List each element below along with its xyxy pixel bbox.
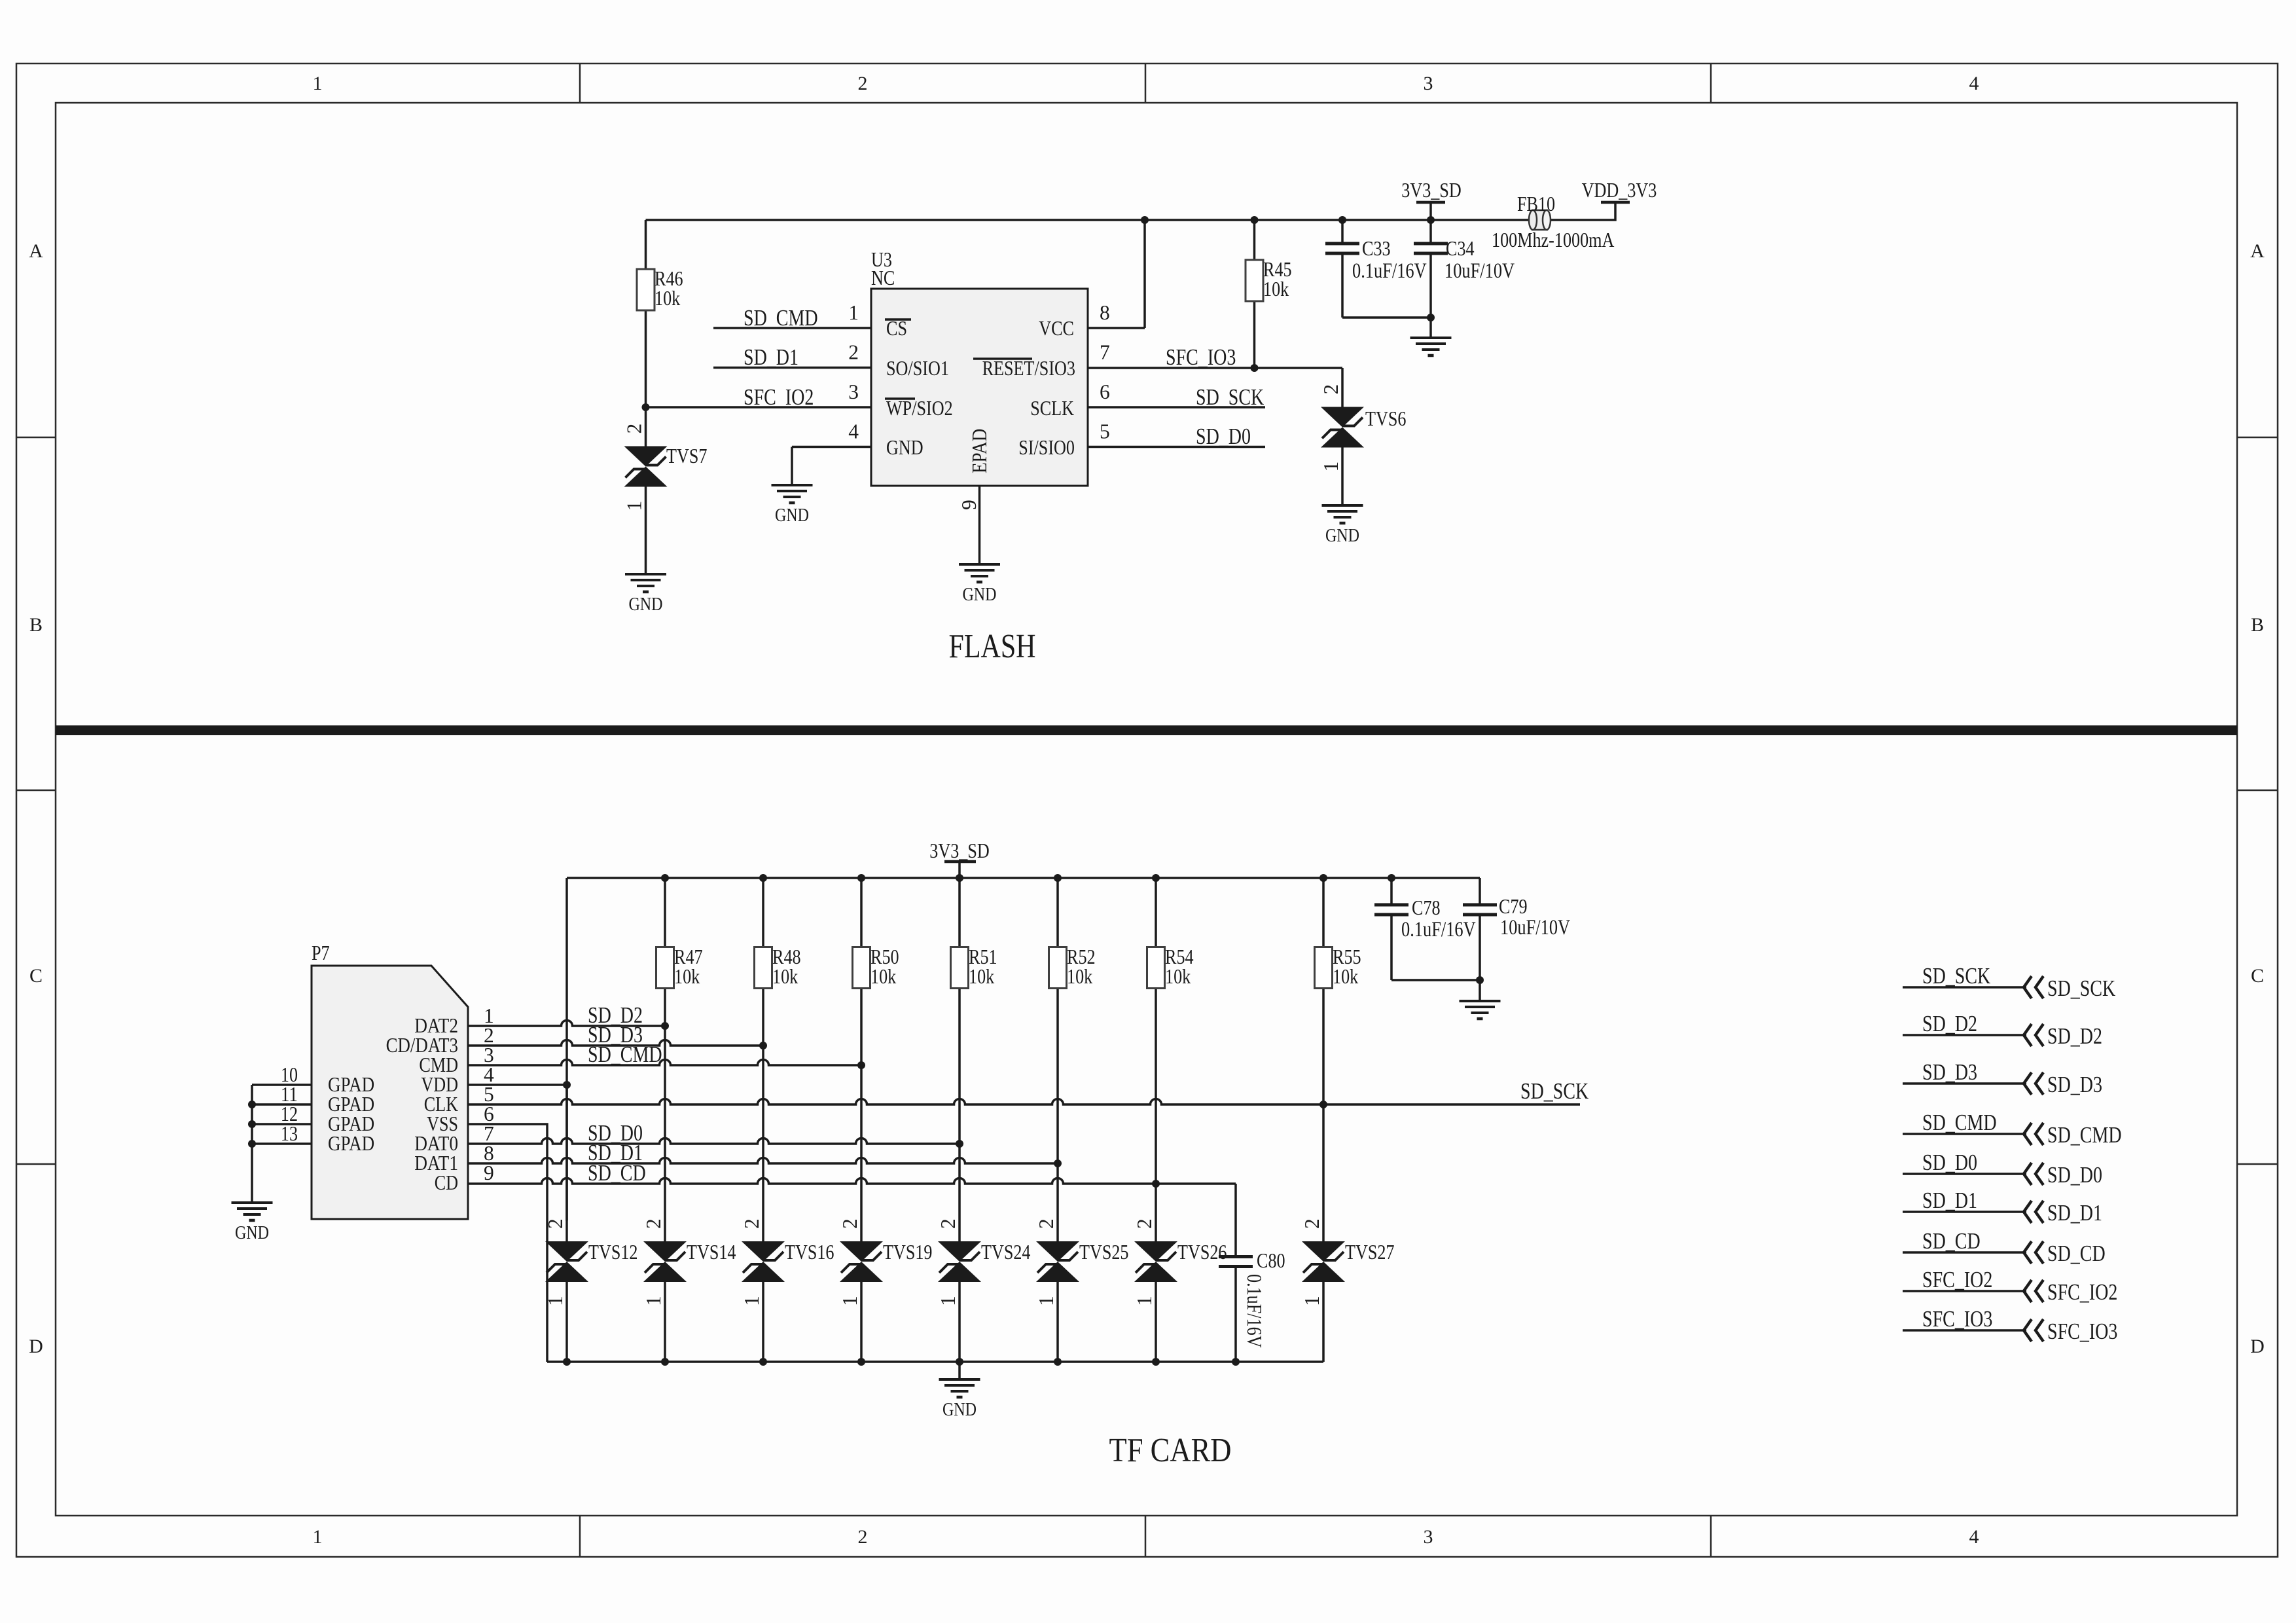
- svg-text:3: 3: [1424, 73, 1433, 94]
- svg-text:TVS27: TVS27: [1345, 1241, 1395, 1264]
- TVS diode TVS19: [840, 1241, 883, 1262]
- wire TVS12 to ground bus: [565, 1282, 568, 1362]
- svg-text:10k: 10k: [655, 287, 680, 310]
- off-page connector SD_CD: [1903, 1251, 2026, 1254]
- svg-text:SD_CMD: SD_CMD: [588, 1042, 662, 1067]
- resistor R54: [1155, 878, 1157, 947]
- svg-text:1: 1: [838, 1296, 861, 1306]
- svg-text:SD_D3: SD_D3: [1922, 1059, 1977, 1085]
- junction node C33/C34 ground: [1427, 314, 1435, 321]
- wire GPAD pin 10: [252, 1084, 312, 1086]
- off-page connector SD_SCK: [1903, 986, 2026, 989]
- power flag VDD_3V3: [1601, 201, 1630, 204]
- svg-text:GND: GND: [235, 1222, 269, 1243]
- svg-text:0.1uF/16V: 0.1uF/16V: [1243, 1274, 1266, 1348]
- ferrite bead FB10: [1532, 210, 1548, 230]
- svg-text:SD_D0: SD_D0: [1196, 424, 1251, 449]
- svg-text:A: A: [29, 240, 43, 262]
- svg-text:SD_SCK: SD_SCK: [1922, 963, 1990, 989]
- svg-text:GPAD: GPAD: [328, 1132, 374, 1155]
- junction node bus/1888: [1232, 1358, 1240, 1366]
- svg-text:9: 9: [484, 1161, 494, 1184]
- svg-text:SO/SIO1: SO/SIO1: [886, 357, 949, 380]
- resistor R51: [958, 878, 961, 947]
- svg-text:2: 2: [838, 1218, 861, 1229]
- junction node bus/1466: [956, 1358, 963, 1366]
- wire SD_CMD to U3 pin 1: [713, 327, 871, 329]
- svg-text:TVS26: TVS26: [1177, 1241, 1227, 1264]
- junction node rail/1766: [1152, 874, 1160, 882]
- junction node rail/1316: [857, 874, 865, 882]
- svg-text:4: 4: [1969, 1526, 1979, 1548]
- junction node rail/C34: [1427, 216, 1435, 224]
- TVS diode TVS7: [624, 447, 668, 467]
- wire TVS27 top: [1322, 1104, 1325, 1241]
- wire VDD (P7 pin4 to 3V3 drop): [468, 1084, 567, 1086]
- junction node CLK/R55: [1319, 1101, 1327, 1108]
- junction node rail/1016: [661, 874, 669, 882]
- svg-text:SD_D1: SD_D1: [744, 344, 798, 370]
- junction node GPAD 11: [248, 1101, 256, 1108]
- junction node rail/C33: [1338, 216, 1346, 224]
- svg-text:9: 9: [958, 500, 980, 510]
- wire C34 to ground: [1429, 318, 1432, 338]
- capacitor C78: [1390, 878, 1393, 905]
- off-page connector SFC_IO2: [1903, 1290, 2026, 1292]
- svg-text:3V3_SD: 3V3_SD: [1401, 179, 1462, 202]
- wire TVS16 top: [762, 1046, 764, 1241]
- resistor R45: [1253, 220, 1256, 260]
- svg-text:2: 2: [858, 1526, 868, 1548]
- wire TVS7 top: [645, 407, 647, 447]
- svg-text:1: 1: [1035, 1296, 1058, 1306]
- svg-text:1: 1: [848, 301, 859, 324]
- svg-text:WP/SIO2: WP/SIO2: [886, 397, 953, 420]
- capacitor C34: [1429, 220, 1432, 244]
- svg-text:GND: GND: [886, 436, 924, 459]
- svg-text:TVS16: TVS16: [785, 1241, 834, 1264]
- wire VSS (P7 pin6 to ground bus): [468, 1124, 547, 1362]
- svg-text:1: 1: [313, 73, 323, 94]
- wire SD_D1 (P7 pin8 to R52/TVS25): [468, 1158, 1058, 1164]
- wire TVS24 top: [958, 1144, 961, 1241]
- svg-text:3V3_SD: 3V3_SD: [929, 839, 990, 862]
- svg-text:C33: C33: [1362, 237, 1391, 260]
- junction node SD_D0: [956, 1140, 963, 1148]
- svg-text:SD_CD: SD_CD: [1922, 1228, 1981, 1254]
- svg-text:8: 8: [1100, 301, 1110, 324]
- capacitor C79: [1479, 878, 1481, 905]
- svg-text:CD: CD: [435, 1171, 458, 1194]
- svg-text:SD_CMD: SD_CMD: [2047, 1122, 2122, 1148]
- svg-text:10k: 10k: [969, 965, 994, 988]
- svg-text:TVS24: TVS24: [981, 1241, 1031, 1264]
- wire SD_D3 (P7 pin2 to R48/TVS16): [468, 1040, 763, 1046]
- wire GPAD pin 11: [252, 1103, 312, 1106]
- svg-text:C80: C80: [1257, 1249, 1285, 1272]
- svg-text:SFC_IO2: SFC_IO2: [2047, 1279, 2117, 1305]
- TVS diode TVS16: [742, 1241, 785, 1262]
- junction node SD_D2: [661, 1022, 669, 1030]
- wire 3V3 rail (TF): [567, 877, 1480, 879]
- resistor R55: [1322, 878, 1325, 947]
- svg-text:2: 2: [1300, 1218, 1323, 1229]
- wire U3 pin 6 SD_SCK: [1088, 406, 1265, 409]
- svg-text:SD_D2: SD_D2: [1922, 1011, 1977, 1036]
- svg-text:SFC_IO2: SFC_IO2: [1922, 1267, 1992, 1292]
- wire SFC_IO2 to U3 pin 3: [646, 406, 872, 409]
- svg-text:SD_SCK: SD_SCK: [1520, 1078, 1588, 1104]
- wire TVS14 to ground bus: [664, 1282, 666, 1362]
- ground (C78/C79): [1460, 1000, 1501, 1002]
- svg-text:2: 2: [1319, 384, 1342, 395]
- svg-text:C78: C78: [1412, 896, 1441, 919]
- svg-text:SD_CMD: SD_CMD: [744, 305, 818, 331]
- svg-text:10k: 10k: [772, 965, 798, 988]
- junction node rail/1166: [759, 874, 767, 882]
- off-page connector SD_D2: [1903, 1034, 2026, 1036]
- TVS diode TVS14: [643, 1241, 687, 1262]
- svg-text:10k: 10k: [1333, 965, 1358, 988]
- wire 3V3 rail (FLASH): [646, 219, 1530, 221]
- svg-text:TVS6: TVS6: [1365, 407, 1407, 430]
- svg-text:TVS25: TVS25: [1079, 1241, 1129, 1264]
- junction node SFC_IO2/R46/TVS7: [642, 403, 650, 411]
- off-page connector SFC_IO3: [1903, 1329, 2026, 1332]
- off-page connector SD_D1: [1903, 1211, 2026, 1213]
- svg-text:4: 4: [848, 420, 859, 443]
- svg-text:2: 2: [740, 1218, 763, 1229]
- wire GPAD common to ground: [251, 1085, 253, 1203]
- power flag 3V3_SD: [1429, 202, 1432, 220]
- svg-text:100Mhz-1000mA: 100Mhz-1000mA: [1492, 228, 1615, 251]
- junction node bus/1766: [1152, 1358, 1160, 1366]
- svg-text:3: 3: [1424, 1526, 1433, 1548]
- junction node SFC_IO3/R45: [1251, 364, 1259, 372]
- capacitor C33: [1341, 220, 1344, 244]
- wire SD_D2 (P7 pin1 to R47/TVS14): [468, 1021, 665, 1027]
- svg-text:SD_D0: SD_D0: [2047, 1162, 2102, 1188]
- junction node bus/866: [563, 1358, 571, 1366]
- wire TVS26 to ground bus: [1155, 1282, 1157, 1362]
- wire SD_CMD (P7 pin3 to R50/TVS19): [468, 1060, 861, 1066]
- wire CLK / SD_SCK: [468, 1099, 1580, 1104]
- junction node bus/1616: [1054, 1358, 1062, 1366]
- svg-text:1: 1: [1133, 1296, 1156, 1306]
- ground GND (bus): [939, 1378, 980, 1381]
- junction node rail/1616: [1054, 874, 1062, 882]
- svg-text:2: 2: [1035, 1218, 1058, 1229]
- svg-text:2: 2: [642, 1218, 665, 1229]
- junction node C78/C79 ground: [1476, 976, 1484, 984]
- TVS diode TVS24: [938, 1241, 981, 1262]
- svg-text:EPAD: EPAD: [968, 429, 991, 473]
- wire ground bus: [547, 1360, 1323, 1363]
- svg-text:10k: 10k: [1263, 278, 1289, 301]
- junction node SD_CMD: [857, 1061, 865, 1069]
- svg-text:6: 6: [1100, 380, 1110, 403]
- svg-text:NC: NC: [871, 266, 895, 289]
- svg-text:P7: P7: [312, 941, 330, 964]
- svg-text:2: 2: [1133, 1218, 1156, 1229]
- wire U3 pin 7 SFC_IO3: [1088, 367, 1342, 369]
- wire U3 pin 8 VCC to rail: [1088, 327, 1145, 329]
- wire TVS12 top: [565, 1085, 568, 1241]
- wire TVS26 top: [1155, 1184, 1157, 1241]
- junction node rail/pin8: [1141, 216, 1149, 224]
- svg-text:SD_D1: SD_D1: [2047, 1200, 2102, 1226]
- svg-text:SD_D1: SD_D1: [1922, 1188, 1977, 1213]
- off-page connector SD_D0: [1903, 1173, 2026, 1175]
- wire SD_D0 (P7 pin7 to R51/TVS24): [468, 1139, 960, 1144]
- wire TVS14 top: [664, 1026, 666, 1241]
- wire TVS6 to ground: [1341, 448, 1344, 506]
- wire U3 pin 4 to ground: [792, 446, 871, 448]
- svg-text:2: 2: [848, 341, 859, 364]
- svg-text:10k: 10k: [870, 965, 896, 988]
- svg-text:2: 2: [623, 424, 646, 434]
- svg-text:GND: GND: [962, 584, 996, 605]
- svg-text:SCLK: SCLK: [1030, 397, 1074, 420]
- svg-text:SD_SCK: SD_SCK: [2047, 976, 2115, 1001]
- junction node bus/1316: [857, 1358, 865, 1366]
- ground (U3 pin 4): [772, 484, 813, 486]
- svg-text:GND: GND: [628, 594, 662, 615]
- resistor R48: [762, 878, 764, 947]
- junction node SD_CD: [1152, 1180, 1160, 1188]
- svg-text:GND: GND: [775, 505, 809, 526]
- svg-text:1: 1: [937, 1296, 960, 1306]
- junction node bus/1166: [759, 1358, 767, 1366]
- wire GPAD pin 13: [252, 1142, 312, 1145]
- wire TVS19 to ground bus: [860, 1282, 863, 1362]
- svg-text:C79: C79: [1499, 895, 1528, 918]
- wire 3V3 drop to VDD and TVS12: [565, 878, 568, 1221]
- wire U3 pin 5 SD_D0: [1088, 446, 1265, 448]
- svg-text:TVS14: TVS14: [687, 1241, 736, 1264]
- TVS diode TVS26: [1134, 1241, 1177, 1262]
- TVS diode TVS12: [545, 1241, 588, 1262]
- ground GND (P7): [232, 1201, 273, 1204]
- svg-text:TVS19: TVS19: [883, 1241, 933, 1264]
- svg-text:RESET/SIO3: RESET/SIO3: [982, 357, 1075, 380]
- svg-text:GND: GND: [942, 1399, 977, 1420]
- wire TVS27 to ground bus: [1322, 1282, 1325, 1362]
- resistor R52: [1056, 878, 1059, 947]
- svg-text:SFC_IO3: SFC_IO3: [1922, 1306, 1992, 1332]
- wire bus to ground: [958, 1362, 961, 1379]
- TVS diode TVS25: [1036, 1241, 1079, 1262]
- svg-text:1: 1: [623, 501, 646, 511]
- TVS diode TVS6: [1321, 407, 1364, 428]
- wire TVS25 top: [1056, 1163, 1059, 1241]
- wire FB10 to VDD_3V3: [1550, 202, 1615, 220]
- section divider bar: [56, 725, 2237, 735]
- svg-text:B: B: [2251, 614, 2264, 636]
- ground (C33/C34): [1410, 337, 1452, 339]
- IC U3 body: [871, 289, 1088, 486]
- ground GND (TVS6): [1322, 504, 1363, 507]
- resistor R47: [664, 878, 666, 947]
- svg-text:FLASH: FLASH: [949, 628, 1036, 665]
- TVS diode TVS27: [1302, 1241, 1345, 1262]
- svg-text:D: D: [29, 1336, 43, 1357]
- svg-text:C: C: [2251, 965, 2264, 987]
- off-page connector SD_D3: [1903, 1082, 2026, 1085]
- svg-text:SD_D0: SD_D0: [1922, 1150, 1977, 1175]
- wire TVS16 to ground bus: [762, 1282, 764, 1362]
- svg-text:10uF/10V: 10uF/10V: [1500, 916, 1570, 939]
- svg-text:TF CARD: TF CARD: [1109, 1432, 1232, 1469]
- ground GND (TVS7): [625, 573, 666, 575]
- junction node rail/1466: [956, 874, 963, 882]
- svg-text:3: 3: [848, 380, 859, 403]
- junction node SD_D1: [1054, 1159, 1062, 1167]
- wire GPAD pin 12: [252, 1123, 312, 1125]
- svg-text:7: 7: [1100, 341, 1110, 364]
- wire TVS7 to ground: [645, 487, 647, 575]
- svg-text:1: 1: [1300, 1296, 1323, 1306]
- wire TVS24 to ground bus: [958, 1282, 961, 1362]
- resistor R46: [645, 220, 647, 269]
- svg-text:SD_SCK: SD_SCK: [1196, 384, 1264, 410]
- ground GND (EPAD): [959, 563, 1000, 566]
- svg-text:C: C: [29, 965, 43, 987]
- power flag 3V3_SD (TF): [958, 862, 961, 878]
- svg-text:SFC_IO3: SFC_IO3: [1166, 344, 1236, 370]
- svg-text:SI/SIO0: SI/SIO0: [1018, 436, 1075, 459]
- svg-text:SD_CD: SD_CD: [588, 1160, 646, 1186]
- svg-text:2: 2: [544, 1218, 567, 1229]
- svg-text:SFC_IO3: SFC_IO3: [2047, 1319, 2117, 1344]
- svg-text:0.1uF/16V: 0.1uF/16V: [1401, 918, 1476, 941]
- svg-text:VCC: VCC: [1039, 317, 1074, 340]
- connector P7 body: [312, 966, 468, 1219]
- off-page connector SD_CMD: [1903, 1133, 2026, 1135]
- junction node rail/R45: [1251, 216, 1259, 224]
- svg-text:SD_CMD: SD_CMD: [1922, 1110, 1997, 1135]
- svg-text:10k: 10k: [1165, 965, 1191, 988]
- svg-text:SD_CD: SD_CD: [2047, 1241, 2106, 1266]
- svg-text:1: 1: [1319, 462, 1342, 472]
- svg-text:VDD_3V3: VDD_3V3: [1582, 179, 1657, 202]
- svg-text:1: 1: [740, 1296, 763, 1306]
- wire SD_D1 to U3 pin 2: [713, 367, 871, 369]
- junction node SD_D3: [759, 1042, 767, 1049]
- svg-text:FB10: FB10: [1517, 192, 1555, 215]
- svg-text:5: 5: [1100, 420, 1110, 443]
- svg-text:1: 1: [313, 1526, 323, 1548]
- wire C33 to C34 bottom: [1342, 316, 1431, 319]
- junction node VDD: [563, 1081, 571, 1089]
- svg-text:SD_D3: SD_D3: [2047, 1072, 2102, 1097]
- svg-text:1: 1: [642, 1296, 665, 1306]
- svg-text:4: 4: [1969, 73, 1979, 94]
- resistor R50: [860, 878, 863, 947]
- svg-text:0.1uF/16V: 0.1uF/16V: [1352, 259, 1427, 283]
- svg-text:GND: GND: [1325, 525, 1359, 546]
- junction node rail/2126: [1388, 874, 1395, 882]
- svg-text:D: D: [2250, 1336, 2265, 1357]
- junction node rail/2022: [1319, 874, 1327, 882]
- junction node GPAD 13: [248, 1140, 256, 1148]
- svg-text:TVS12: TVS12: [588, 1241, 638, 1264]
- svg-text:A: A: [2250, 240, 2265, 262]
- svg-text:B: B: [29, 614, 43, 636]
- svg-text:2: 2: [858, 73, 868, 94]
- wire TVS25 to ground bus: [1056, 1282, 1059, 1362]
- capacitor C80: [1219, 1255, 1253, 1258]
- wire U3 EPAD pin 9 to ground: [978, 486, 981, 564]
- svg-text:10k: 10k: [1067, 965, 1092, 988]
- svg-text:10k: 10k: [674, 965, 700, 988]
- wire SD_CD (P7 pin9 to R54/TVS26 and C80): [468, 1178, 1236, 1184]
- svg-text:C34: C34: [1446, 237, 1475, 260]
- svg-text:SFC_IO2: SFC_IO2: [744, 384, 814, 410]
- svg-text:2: 2: [937, 1218, 960, 1229]
- svg-text:TVS7: TVS7: [666, 445, 708, 467]
- wire TVS19 top: [860, 1065, 863, 1241]
- junction node bus/1016: [661, 1358, 669, 1366]
- svg-text:SD_D2: SD_D2: [2047, 1023, 2102, 1049]
- svg-text:10uF/10V: 10uF/10V: [1444, 259, 1515, 283]
- junction node GPAD 12: [248, 1120, 256, 1128]
- svg-text:1: 1: [544, 1296, 567, 1306]
- svg-text:13: 13: [281, 1122, 298, 1145]
